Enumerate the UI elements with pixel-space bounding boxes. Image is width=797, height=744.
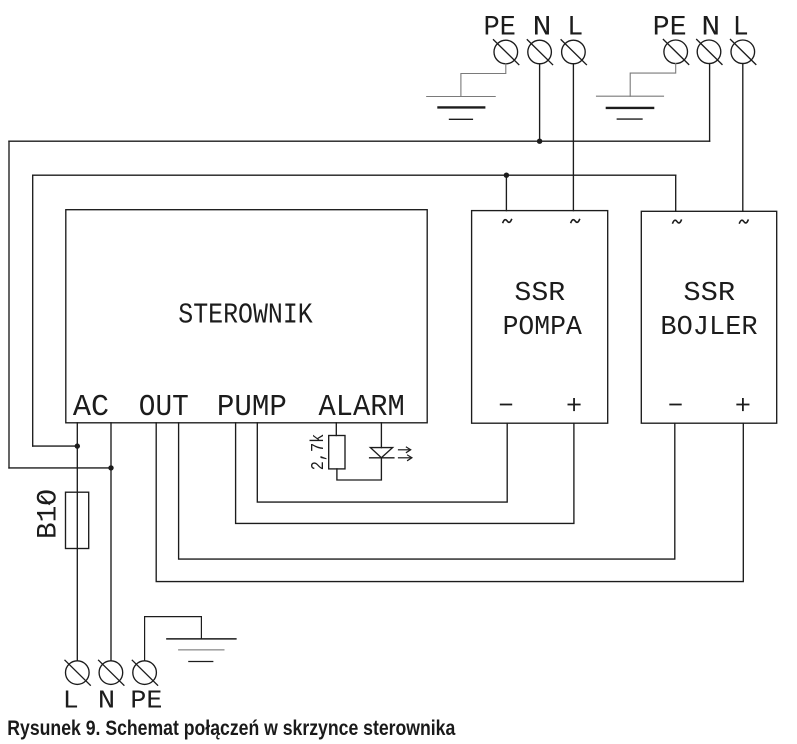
SSR BOJLER ~ right pin mark [740,220,749,223]
wire ALARM left to resistor [335,423,337,436]
wire N bus to AC right terminal [9,467,111,469]
svg-text:PUMP: PUMP [217,391,287,425]
wire AC left down through fuse to L bottom [76,423,78,661]
terminal N (top group 2) [697,40,722,65]
terminal L (top group 2) [731,40,756,65]
svg-text:STEROWNIK: STEROWNIK [178,298,313,331]
wire L bus drop to SSR POMPA ~ left [505,175,507,210]
terminal L (bottom) [65,660,90,685]
box SSR BOJLER [641,211,776,423]
svg-text:B1O: B1O [33,489,64,539]
wire N1 stub down to N bus [539,64,541,141]
svg-text:Rysunek 9. Schemat połączeń w: Rysunek 9. Schemat połączeń w skrzynce s… [7,717,455,740]
wire PE bottom lead to ground [145,617,202,661]
svg-text:PE: PE [130,685,162,715]
wire AC right down to N bottom [110,423,112,661]
svg-text:2,7k: 2,7k [307,434,329,471]
svg-text:N: N [98,685,116,715]
SSR BOJLER ~ left pin mark [673,220,682,223]
wire L1 to SSR POMPA ~ right [572,64,574,211]
terminal PE (top group 1) [494,40,519,65]
terminal PE (bottom) [132,660,157,685]
SSR BOJLER minus pin mark [670,404,681,406]
svg-text:BOJLER: BOJLER [660,313,757,343]
SSR POMPA plus pin mark [568,399,579,410]
terminal N (top group 1) [527,40,552,65]
svg-text:L: L [567,12,583,43]
node junction AC left [75,443,80,448]
wire ALARM right to LED [380,423,382,448]
node junction L bus / SSR POMPA [504,173,509,178]
svg-text:PE: PE [653,12,687,43]
SSR POMPA ~ left pin mark [503,220,512,223]
wire L bus to AC left terminal [33,445,78,447]
svg-text:N: N [701,12,720,43]
svg-text:POMPA: POMPA [503,313,583,343]
ground (bottom) [167,639,236,662]
wire N bus horizontal [9,140,710,142]
wire OUT right to SSR BOJLER - [179,423,675,559]
wire L2 to SSR BOJLER ~ right [742,64,744,212]
wire PE2 lead to ground [630,64,676,97]
wire L bus left vertical [32,175,34,446]
svg-text:AC: AC [73,391,109,425]
SSR POMPA ~ right pin mark [571,220,580,223]
svg-text:N: N [533,12,552,43]
node junction N1/N bus [537,139,542,144]
terminal N (bottom) [99,660,124,685]
wire N bus right vertical to N2 [709,64,711,142]
box SSR POMPA [472,211,608,424]
wire resistor bottom to LED bottom [337,458,382,480]
node junction AC right [108,465,113,470]
terminal L (top group 1) [561,40,586,65]
wire N bus left vertical [8,141,10,468]
svg-text:L: L [63,685,79,715]
box STEROWNIK [66,210,427,423]
wire PUMP left to SSR POMPA + [236,423,574,524]
wire PE1 lead to ground [461,64,506,97]
ground (top right) [597,96,664,119]
LED diode triangle [370,448,392,458]
svg-text:L: L [733,12,749,43]
wire L bus drop to SSR BOJLER ~ left [675,175,677,211]
fuse B10 [66,492,89,548]
wire OUT left to SSR BOJLER + [156,423,743,582]
LED arrow upper [399,447,411,452]
wire PUMP right to SSR POMPA - [257,423,507,502]
ground (top left) [427,97,496,120]
svg-text:OUT: OUT [139,391,189,425]
SSR POMPA minus pin mark [501,404,512,406]
LED arrow lower [399,455,412,460]
resistor 2,7k [329,436,345,469]
svg-text:PE: PE [483,12,516,43]
LED cathode bar [370,457,394,459]
terminal PE (top group 2) [663,40,688,65]
svg-text:SSR: SSR [683,279,735,309]
SSR BOJLER plus pin mark [737,399,748,410]
wire L bus horizontal [33,174,676,176]
svg-text:SSR: SSR [514,279,565,309]
svg-text:ALARM: ALARM [319,391,405,425]
